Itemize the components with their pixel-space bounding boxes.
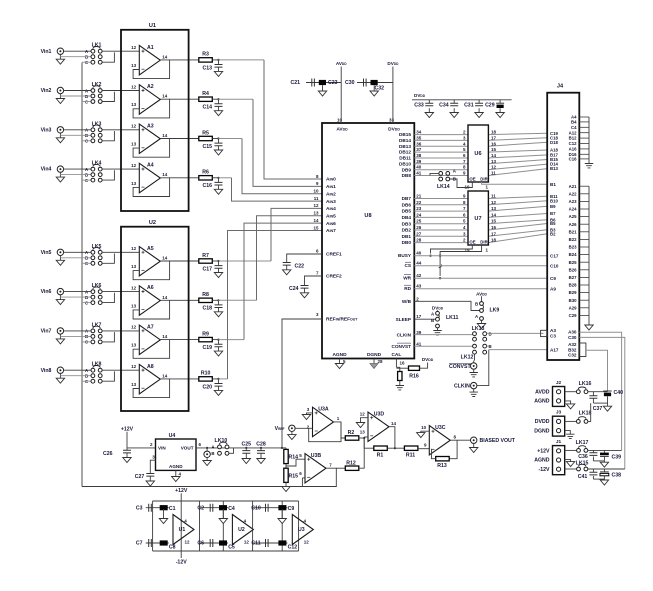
svg-text:OE: OE xyxy=(469,239,475,244)
op-amp A6 xyxy=(139,286,160,316)
svg-text:B26: B26 xyxy=(569,267,577,272)
wire +12V to U4 VIN xyxy=(127,447,156,449)
wire CS to J4 C10 xyxy=(414,265,547,267)
wire J4 spare pins ladder 1 xyxy=(579,116,589,118)
svg-text:B: B xyxy=(211,451,214,456)
svg-text:Vin5: Vin5 xyxy=(41,250,52,256)
resistor R1 xyxy=(374,446,388,450)
wire LK14 to DB8 xyxy=(430,173,439,175)
wire Vin7 to LK7 xyxy=(63,330,91,332)
svg-text:R11: R11 xyxy=(406,453,415,459)
svg-text:13: 13 xyxy=(131,343,137,348)
svg-text:-12V: -12V xyxy=(539,467,550,473)
capacitor C6 xyxy=(210,539,213,547)
svg-text:28: 28 xyxy=(416,238,422,243)
wire U4 VOUT (VREF node) xyxy=(196,447,282,449)
svg-text:C3: C3 xyxy=(136,505,143,511)
svg-text:36: 36 xyxy=(416,141,422,146)
svg-text:A26: A26 xyxy=(569,222,577,227)
svg-text:15: 15 xyxy=(491,147,497,152)
svg-text:42: 42 xyxy=(416,273,422,278)
ground xyxy=(214,312,222,317)
svg-text:12: 12 xyxy=(131,84,137,89)
svg-text:11: 11 xyxy=(491,194,496,199)
wire A1 out to AIN0 xyxy=(219,59,265,61)
svg-text:C29: C29 xyxy=(569,313,577,318)
svg-text:12: 12 xyxy=(491,200,497,205)
wire U7 to J4 xyxy=(488,224,547,231)
svg-text:SLEEP: SLEEP xyxy=(396,317,411,322)
capacitor C24 xyxy=(301,286,309,289)
wire DB9 to U6 xyxy=(414,169,468,171)
wire DB0 to U7 xyxy=(414,242,468,244)
ground xyxy=(421,431,430,432)
svg-text:A6: A6 xyxy=(147,285,154,291)
svg-text:U2: U2 xyxy=(238,527,245,533)
svg-text:14: 14 xyxy=(491,153,497,158)
wire A4 output xyxy=(170,177,199,179)
op-amp A7 xyxy=(139,325,160,355)
ground xyxy=(214,71,222,76)
svg-text:DB9: DB9 xyxy=(402,167,412,172)
wire J4 A30 supply xyxy=(579,332,621,450)
svg-text:C9: C9 xyxy=(288,506,295,512)
wire C37/C40 common xyxy=(593,402,607,404)
svg-text:14: 14 xyxy=(162,295,168,300)
ADC U8 xyxy=(322,123,414,359)
wire U6 to J4 xyxy=(488,133,547,134)
svg-text:17: 17 xyxy=(491,135,497,140)
wire op-amp A1 feedback xyxy=(133,60,170,79)
wire A6 output xyxy=(170,299,199,301)
svg-text:A22: A22 xyxy=(569,191,577,196)
svg-text:DB13: DB13 xyxy=(399,144,411,149)
ground xyxy=(159,519,167,524)
wire J4 B32 to C40 node xyxy=(586,350,608,392)
ground xyxy=(585,325,593,330)
svg-text:11: 11 xyxy=(491,171,496,176)
svg-text:15: 15 xyxy=(313,225,319,230)
wire DB7 to U7 xyxy=(414,198,468,200)
svg-text:11: 11 xyxy=(314,196,319,201)
wire LK18 riser xyxy=(588,403,591,421)
svg-text:16: 16 xyxy=(400,361,406,366)
svg-text:33: 33 xyxy=(389,118,395,123)
capacitor C3 xyxy=(149,504,152,512)
svg-text:B: B xyxy=(453,177,456,182)
wire Vin6 to LK6 xyxy=(63,291,91,293)
wire U7 to J4 xyxy=(488,220,547,224)
svg-text:C33: C33 xyxy=(414,102,424,108)
resistor R3 xyxy=(199,58,213,62)
svg-text:C34: C34 xyxy=(439,102,449,108)
wire LK1 row B xyxy=(60,56,91,58)
node J4 A3/C3 bracket xyxy=(541,330,548,336)
svg-text:A2: A2 xyxy=(147,84,154,90)
svg-text:B21: B21 xyxy=(569,229,577,234)
svg-text:14: 14 xyxy=(162,334,168,339)
ground xyxy=(214,351,222,356)
wire U7 to J4 xyxy=(488,201,547,205)
svg-text:D18: D18 xyxy=(550,140,558,145)
svg-text:10: 10 xyxy=(313,189,319,194)
svg-text:U3A: U3A xyxy=(318,407,329,413)
wire CLKIN BNC riser xyxy=(477,350,489,386)
ground xyxy=(203,461,211,466)
wire J1 -12V to LK15 xyxy=(565,468,577,470)
svg-text:C10: C10 xyxy=(550,264,559,269)
svg-text:12: 12 xyxy=(131,325,137,330)
svg-text:12: 12 xyxy=(304,540,310,545)
resistor R8 xyxy=(199,298,213,302)
op-amp U3C xyxy=(429,426,450,456)
capacitor C32 xyxy=(371,80,378,85)
svg-text:C13: C13 xyxy=(202,65,212,71)
jumper LK5 pins xyxy=(91,250,95,254)
svg-text:14: 14 xyxy=(162,94,168,99)
capacitor C19 xyxy=(218,340,220,345)
svg-text:DB7: DB7 xyxy=(402,196,412,201)
svg-text:12: 12 xyxy=(131,163,137,168)
svg-text:J4: J4 xyxy=(557,84,564,90)
ground xyxy=(450,113,458,118)
svg-text:13: 13 xyxy=(360,430,366,435)
svg-text:12: 12 xyxy=(131,246,137,251)
wire to U3D- xyxy=(364,436,368,438)
wire U3A feedback xyxy=(309,422,341,442)
wire LK7 row C xyxy=(82,341,91,343)
svg-text:DB3: DB3 xyxy=(402,221,412,226)
wire CREF2 to C24 xyxy=(305,276,323,286)
wire decoupling group U3 xyxy=(252,501,254,551)
wire -12V rail xyxy=(153,550,299,552)
ground xyxy=(475,113,483,118)
wire LK4 bracket xyxy=(102,170,115,180)
svg-text:R12: R12 xyxy=(346,460,356,466)
svg-text:10: 10 xyxy=(337,118,343,123)
wire J3 DGND xyxy=(565,431,571,435)
ground xyxy=(307,413,313,415)
wire J4 spare pins ladder 2 xyxy=(579,185,589,187)
wire op-amp A4 feedback xyxy=(133,178,170,197)
svg-text:13: 13 xyxy=(131,181,137,186)
svg-text:LK14: LK14 xyxy=(437,184,450,190)
svg-text:C21: C21 xyxy=(290,80,300,86)
wire LK4 row B xyxy=(60,174,91,176)
svg-text:DIR: DIR xyxy=(480,239,488,244)
svg-text:R5: R5 xyxy=(202,130,209,136)
wire DB8 to U6 xyxy=(414,175,468,177)
wire J1 +12V to LK17 xyxy=(565,449,577,451)
op-amp A4 xyxy=(139,163,160,193)
svg-text:C7: C7 xyxy=(136,541,143,547)
ground xyxy=(396,386,404,390)
capacitor C39 xyxy=(603,450,605,452)
svg-text:C9: C9 xyxy=(550,276,556,281)
svg-text:DB6: DB6 xyxy=(402,202,412,207)
svg-text:J3: J3 xyxy=(556,410,562,416)
wire W/B to LK9 xyxy=(414,301,479,310)
wire R16 to DVDD xyxy=(420,363,428,369)
wire op-amp A8 feedback xyxy=(133,379,170,398)
svg-text:R2: R2 xyxy=(348,430,355,436)
svg-text:16: 16 xyxy=(491,225,497,230)
ground xyxy=(214,189,222,194)
svg-text:DVDD: DVDD xyxy=(414,93,426,98)
capacitor C26 xyxy=(123,450,131,453)
op-amp U3A xyxy=(313,407,334,437)
svg-text:C19: C19 xyxy=(202,345,212,351)
wire U7 to J4 xyxy=(488,230,547,237)
svg-text:C1: C1 xyxy=(169,506,176,512)
svg-text:37: 37 xyxy=(416,147,422,152)
svg-text:13: 13 xyxy=(131,382,137,387)
ground xyxy=(585,164,593,168)
svg-text:R7: R7 xyxy=(202,253,209,259)
capacitor C27 xyxy=(146,474,154,477)
resistor R9 xyxy=(199,337,213,341)
svg-text:DB8: DB8 xyxy=(402,173,412,178)
svg-text:C37: C37 xyxy=(593,406,603,412)
wire A8 output xyxy=(170,378,199,380)
svg-text:RD: RD xyxy=(404,286,411,291)
wire CREF1 to C22 xyxy=(287,254,322,263)
capacitor C5 xyxy=(219,540,227,545)
svg-text:C28: C28 xyxy=(256,442,266,448)
svg-text:14: 14 xyxy=(162,133,168,138)
wire DB1 to U7 xyxy=(414,235,468,237)
wire U3B feedback / bias rail xyxy=(82,468,336,486)
svg-text:B29: B29 xyxy=(569,290,577,295)
svg-text:15: 15 xyxy=(491,219,497,224)
svg-text:C18: C18 xyxy=(202,306,212,312)
wire U6 to J4 xyxy=(488,160,547,164)
svg-text:U1: U1 xyxy=(179,527,186,533)
resistor R7 xyxy=(199,259,213,263)
wire LK7 to op-amp xyxy=(102,330,139,332)
svg-text:12: 12 xyxy=(131,124,137,129)
svg-text:J1: J1 xyxy=(556,439,562,445)
svg-text:C41: C41 xyxy=(578,474,588,480)
svg-text:C15: C15 xyxy=(202,144,212,150)
capacitor C9 xyxy=(278,505,286,510)
capacitor C21 xyxy=(306,82,341,84)
ground xyxy=(318,91,326,96)
svg-text:B: B xyxy=(489,344,492,349)
svg-text:C39: C39 xyxy=(612,454,622,460)
ground xyxy=(470,448,478,453)
wire divider to U3B+ xyxy=(286,459,305,466)
svg-text:13: 13 xyxy=(491,206,497,211)
node bias rail (vertical, left side) xyxy=(81,63,83,487)
wire A7 out to AIN6 xyxy=(219,339,245,341)
jumper LK1 pins xyxy=(91,49,95,53)
wire U7 to J4 xyxy=(488,196,547,198)
svg-text:DB5: DB5 xyxy=(402,209,412,214)
ground xyxy=(566,462,574,467)
wire DB12 to U6 xyxy=(414,151,468,153)
svg-text:R4: R4 xyxy=(202,91,209,97)
svg-text:B23: B23 xyxy=(569,245,577,250)
ground xyxy=(257,459,265,464)
svg-text:14: 14 xyxy=(162,172,168,177)
svg-text:A5: A5 xyxy=(147,246,154,252)
svg-text:B1: B1 xyxy=(550,182,556,187)
op-amp A2 xyxy=(139,85,160,115)
capacitor C40 xyxy=(603,390,611,392)
capacitor C8 xyxy=(160,540,168,545)
svg-text:U4: U4 xyxy=(169,433,176,439)
capacitor C2 xyxy=(210,504,213,512)
wire U4 AGND xyxy=(175,470,177,476)
jumper LK4 pins xyxy=(91,167,95,171)
wire A3 output xyxy=(170,138,199,140)
svg-text:24: 24 xyxy=(416,212,422,217)
wire VREF node to R14 xyxy=(282,447,286,449)
wire U3B out to R12 xyxy=(336,467,345,469)
connector J3 xyxy=(553,416,565,436)
svg-text:C36: C36 xyxy=(578,454,588,460)
connector J2 xyxy=(553,387,565,407)
ground xyxy=(600,480,608,485)
wire LK6 row B xyxy=(60,296,91,298)
svg-text:U7: U7 xyxy=(474,216,481,222)
capacitor C38 xyxy=(603,469,605,472)
svg-text:A4: A4 xyxy=(147,163,154,169)
svg-text:C17: C17 xyxy=(550,254,559,259)
wire LK7 bracket xyxy=(102,332,115,342)
wire Vin5 to LK5 xyxy=(63,251,91,253)
jumper LK2 pins xyxy=(91,89,95,93)
svg-text:Vin1: Vin1 xyxy=(41,49,52,55)
wire DB10 to U6 xyxy=(414,163,468,165)
wire A5 out to AIN4 xyxy=(219,260,272,262)
svg-text:C4: C4 xyxy=(571,125,577,130)
svg-text:14: 14 xyxy=(162,54,168,59)
svg-text:41: 41 xyxy=(416,341,422,346)
capacitor C23 xyxy=(319,80,326,85)
capacitor C16 xyxy=(218,178,220,183)
svg-text:DB4: DB4 xyxy=(402,215,412,220)
svg-text:AGND: AGND xyxy=(534,399,550,405)
svg-text:LK15: LK15 xyxy=(576,460,589,466)
wire U7 to J4 xyxy=(488,234,547,243)
ground xyxy=(242,459,250,464)
svg-text:B12: B12 xyxy=(569,136,577,141)
svg-text:A1: A1 xyxy=(147,45,154,51)
wire U3A out to R2 xyxy=(341,422,345,438)
ground xyxy=(370,364,378,369)
wire REFIN to VREF node xyxy=(282,319,322,448)
wire LK7 row B xyxy=(60,335,91,337)
wire A2 out to AIN1 xyxy=(219,98,254,100)
wire rail right end xyxy=(298,501,300,551)
svg-text:43: 43 xyxy=(416,284,422,289)
wire Vin3 to LK3 xyxy=(63,129,91,131)
ground xyxy=(433,331,441,335)
svg-text:C30: C30 xyxy=(345,80,355,86)
svg-text:38: 38 xyxy=(416,153,422,158)
svg-text:DB15: DB15 xyxy=(399,132,411,137)
svg-text:17: 17 xyxy=(416,314,422,319)
svg-text:18: 18 xyxy=(491,238,497,243)
svg-text:13: 13 xyxy=(131,102,137,107)
ground xyxy=(361,418,369,423)
svg-text:35: 35 xyxy=(416,135,422,140)
svg-text:-12V: -12V xyxy=(176,560,187,566)
regulator U4 xyxy=(156,439,197,470)
wire DB15 to U6 xyxy=(414,134,468,136)
svg-text:DB1: DB1 xyxy=(402,234,412,239)
capacitor C1 xyxy=(160,505,168,510)
svg-text:LK10: LK10 xyxy=(215,438,228,444)
wire LK8 row B xyxy=(60,375,91,377)
svg-text:B24: B24 xyxy=(569,252,577,257)
wire LK3 bracket xyxy=(102,131,115,141)
capacitor C12 xyxy=(278,540,286,545)
svg-text:C32: C32 xyxy=(568,353,577,358)
buffer U7 xyxy=(468,191,488,245)
wire DB6 to U7 xyxy=(414,204,468,206)
wire R11 to U3C- xyxy=(418,448,429,450)
svg-text:U2: U2 xyxy=(149,220,156,226)
svg-text:LK16: LK16 xyxy=(579,381,592,387)
wire WR to J4 C9 xyxy=(414,277,547,279)
svg-text:16: 16 xyxy=(491,141,497,146)
capacitor C7 xyxy=(149,539,152,547)
wire U7 DIR xyxy=(440,245,482,276)
wire RD to J4 A9 xyxy=(414,288,547,290)
node J4 A32/B32/C32 bracket xyxy=(579,343,586,357)
svg-text:34: 34 xyxy=(416,130,422,135)
svg-text:14: 14 xyxy=(491,212,497,217)
op-amp U1 power symbol xyxy=(173,515,194,545)
capacitor C17 xyxy=(218,261,220,266)
svg-text:C3: C3 xyxy=(550,333,556,338)
svg-text:A3: A3 xyxy=(147,123,154,129)
capacitor C29 xyxy=(499,100,501,103)
capacitor C10 xyxy=(266,504,269,512)
svg-text:C2: C2 xyxy=(197,505,204,511)
svg-text:B28: B28 xyxy=(569,283,577,288)
resistor R14 xyxy=(285,448,287,450)
op-amp A5 xyxy=(139,247,160,277)
wire U4 pin3 to C27 xyxy=(150,460,155,473)
svg-text:A32: A32 xyxy=(568,342,577,347)
svg-text:B30: B30 xyxy=(569,298,577,303)
capacitor C31 xyxy=(478,100,480,103)
svg-text:LK11: LK11 xyxy=(446,315,459,321)
svg-text:R13: R13 xyxy=(437,463,447,469)
ground xyxy=(172,477,180,482)
wire LK2 bracket xyxy=(102,92,115,102)
svg-text:27: 27 xyxy=(416,231,422,236)
svg-text:13: 13 xyxy=(491,159,497,164)
wire J2 AVDD to LK16 xyxy=(565,391,577,393)
wire op-amp A2 feedback xyxy=(133,99,170,118)
svg-text:A29: A29 xyxy=(569,305,577,310)
svg-text:22: 22 xyxy=(416,200,422,205)
ground xyxy=(214,111,222,116)
svg-text:U3B: U3B xyxy=(311,453,322,459)
svg-text:DB10: DB10 xyxy=(399,161,411,166)
capacitor C14 xyxy=(218,99,220,104)
connector VREF test point xyxy=(206,448,208,451)
wire A8 out to AIN7 xyxy=(219,378,228,380)
svg-text:25: 25 xyxy=(416,219,422,224)
ground xyxy=(566,404,574,409)
svg-text:A25: A25 xyxy=(569,214,577,219)
